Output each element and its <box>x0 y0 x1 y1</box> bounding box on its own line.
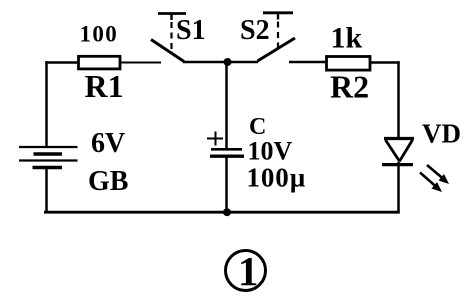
wire: right vertical from corner down to LED <box>397 61 400 139</box>
wire: battery down to bottom-left corner <box>45 168 48 213</box>
figure number 1 (circled) <box>225 248 265 294</box>
svg-text:100: 100 <box>80 21 119 46</box>
LED VD diode triangle <box>382 139 414 165</box>
wire: top-left horizontal to R1 <box>45 61 79 64</box>
wire: center node down to capacitor <box>225 62 228 149</box>
wire: left vertical from top-left corner down to battery <box>45 61 48 147</box>
switch S1 push-button actuator <box>158 13 186 50</box>
resistor R1 <box>79 56 121 69</box>
svg-text:S2: S2 <box>240 15 270 46</box>
wire: S2 to R2 <box>289 61 328 64</box>
wire: capacitor down to bottom node <box>225 156 228 213</box>
svg-text:1: 1 <box>238 248 259 294</box>
resistor R2 <box>327 57 371 71</box>
switch S2 lever <box>258 38 296 61</box>
svg-text:1k: 1k <box>331 22 363 55</box>
wire: R2 to top-right corner <box>369 61 400 64</box>
capacitor C plates <box>210 149 244 156</box>
switch S2 push-button actuator <box>263 13 293 50</box>
svg-text:10V: 10V <box>247 137 292 166</box>
svg-text:VD: VD <box>422 119 461 149</box>
wire: R1 to S1 <box>120 61 161 63</box>
LED light emission arrows <box>420 165 449 192</box>
svg-text:S1: S1 <box>176 15 206 46</box>
wire: center node to S2 pivot <box>228 61 259 64</box>
svg-text:100µ: 100µ <box>246 163 306 193</box>
wire: bottom horizontal <box>44 211 400 214</box>
wire: LED down to bottom-right corner <box>397 162 400 213</box>
junction node (top center) <box>224 58 232 66</box>
svg-text:R2: R2 <box>330 69 369 105</box>
svg-text:6V: 6V <box>91 128 125 159</box>
junction node (bottom center) <box>223 208 231 216</box>
svg-text:R1: R1 <box>85 68 124 104</box>
switch S1 lever <box>151 39 184 61</box>
capacitor polarity + mark <box>207 131 223 145</box>
battery GB <box>19 147 78 168</box>
svg-text:GB: GB <box>88 166 128 197</box>
wire: S1 contact to center node <box>183 61 228 64</box>
